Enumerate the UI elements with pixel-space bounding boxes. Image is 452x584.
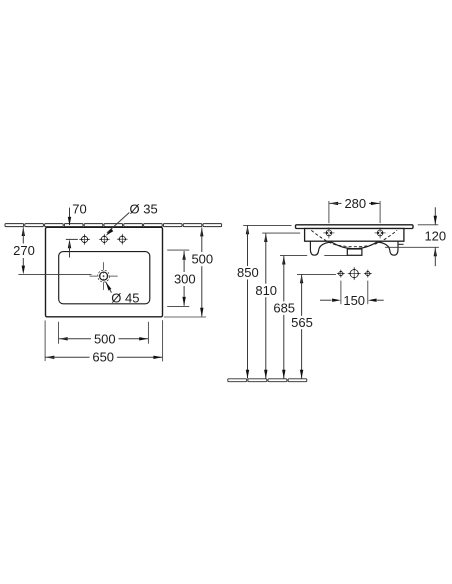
svg-text:500: 500 bbox=[94, 332, 116, 347]
dim 120: top extension line at rim top bbox=[418, 224, 439, 226]
svg-text:Ø 35: Ø 35 bbox=[130, 202, 158, 217]
fixing hole right (front view) bbox=[379, 229, 381, 237]
svg-text:500: 500 bbox=[191, 252, 213, 267]
dim 850: vertical line, top arrow bbox=[246, 226, 249, 235]
dim 500 (right): bottom extension line bbox=[164, 316, 206, 318]
dim 565: extension line at supply hole level bbox=[297, 273, 336, 275]
dim 270: top arrow to wall bbox=[22, 227, 25, 236]
front view: underside line to drain outlet bbox=[324, 254, 347, 256]
svg-text:565: 565 bbox=[291, 315, 313, 330]
dim 300: top arrow bbox=[182, 251, 185, 260]
faucet hole middle (plan) bbox=[99, 234, 110, 245]
dim 150: left inward arrow bbox=[320, 299, 332, 301]
dim 280: line with outward arrows bbox=[329, 202, 338, 205]
basin outer rectangle 650x500 (plan view) bbox=[46, 227, 163, 316]
svg-text:810: 810 bbox=[255, 283, 277, 298]
reference line from drain center to dim 270 bbox=[18, 273, 91, 275]
basin inner bowl rounded rectangle bbox=[59, 252, 150, 304]
svg-text:270: 270 bbox=[13, 243, 35, 258]
dim 70: upper arrow and shaft bbox=[69, 208, 71, 225]
drain hole dashed outer circle bbox=[98, 270, 110, 282]
dim 150: left extension line bbox=[340, 281, 342, 305]
svg-text:685: 685 bbox=[273, 301, 295, 316]
dim 685: extension line at siphon outlet level bbox=[280, 254, 307, 256]
supply hole left (front view) bbox=[337, 270, 345, 278]
leader Ø 35 to middle faucet hole bbox=[107, 213, 129, 233]
supply hole right (front view) bbox=[364, 270, 372, 278]
faucet hole right (plan) bbox=[117, 234, 128, 245]
dim 70: lower arrow pointing up with overshoot bbox=[68, 239, 71, 248]
dim 650 bottom: right extension line bbox=[162, 320, 164, 361]
dim 850: lower shaft and floor arrow bbox=[247, 280, 249, 379]
dim 685: vertical line, top arrow bbox=[282, 256, 285, 265]
dim 650 bottom: left extension line bbox=[44, 321, 46, 362]
front view: dashed bowl hidden outline bbox=[311, 230, 397, 246]
dim 280: right extension line bbox=[379, 201, 381, 223]
front view: drain outlet rectangle bbox=[347, 249, 362, 255]
dim 300: bottom extension line bbox=[167, 306, 189, 308]
svg-text:300: 300 bbox=[174, 271, 196, 286]
dim 270: bottom arrow to drain centerline bbox=[22, 266, 25, 275]
dim 810: vertical line, top arrow bbox=[264, 233, 267, 242]
dim 120: bottom arrow pointing up bbox=[434, 247, 437, 256]
dim 120: top arrow pointing down bbox=[434, 207, 436, 224]
svg-text:150: 150 bbox=[343, 293, 365, 308]
dim 500 bottom: line and outward arrows bbox=[59, 337, 68, 340]
faucet hole left (plan) bbox=[79, 234, 90, 245]
dim 565: lower shaft and floor arrow bbox=[301, 329, 303, 378]
dim 500 bottom: left extension line bbox=[58, 322, 60, 344]
drain hole solid circle bbox=[100, 272, 108, 280]
front view: step bottom edge right bbox=[398, 243, 403, 245]
svg-text:280: 280 bbox=[344, 196, 366, 211]
dim 70: lower tick line at faucet hole centerline bbox=[66, 238, 78, 240]
fixing hole left (front view) bbox=[328, 229, 330, 237]
svg-text:70: 70 bbox=[72, 201, 86, 216]
dim 650 bottom: line and outward arrows bbox=[46, 356, 55, 359]
dim 565: vertical line, top arrow bbox=[300, 275, 303, 284]
dim 150: right extension line bbox=[367, 281, 369, 305]
dim 150: right inward arrow bbox=[368, 299, 377, 302]
front view: rim slab bbox=[296, 225, 414, 229]
dim 810: extension line at fixing hole level bbox=[262, 232, 300, 234]
dim 500 bottom: right extension line bbox=[147, 322, 149, 344]
front view: apron and legs solid profile bbox=[310, 241, 398, 255]
leader Ø 45 from drain bbox=[106, 282, 112, 293]
floor section band (front view) bbox=[228, 379, 307, 382]
svg-text:850: 850 bbox=[237, 265, 259, 280]
dim 500 (right, vertical): top arrow at wall bbox=[200, 228, 203, 237]
dim 280: left extension line bbox=[328, 201, 330, 223]
dim 685: lower shaft and floor arrow bbox=[283, 315, 285, 379]
dim 850: extension line at rim top level bbox=[243, 224, 291, 226]
drain connection center hole (front view) bbox=[348, 267, 361, 280]
dim 500 (right): lower shaft and arrow bbox=[201, 266, 203, 316]
dim 300: bottom arrow bbox=[183, 286, 185, 306]
dim 300: top extension line bbox=[167, 249, 189, 251]
drain hole center cross dash-dot bbox=[90, 275, 98, 277]
front view: basin body bbox=[305, 229, 404, 242]
svg-text:650: 650 bbox=[92, 349, 114, 364]
dim 810: lower shaft and floor arrow bbox=[265, 297, 267, 378]
svg-text:120: 120 bbox=[424, 229, 446, 244]
dim 270: vertical line with text break bbox=[22, 237, 24, 243]
wall section band (left view) bbox=[5, 224, 222, 227]
svg-text:Ø 45: Ø 45 bbox=[111, 291, 139, 306]
dim 120: bottom extension line at basin underside bbox=[385, 246, 439, 248]
